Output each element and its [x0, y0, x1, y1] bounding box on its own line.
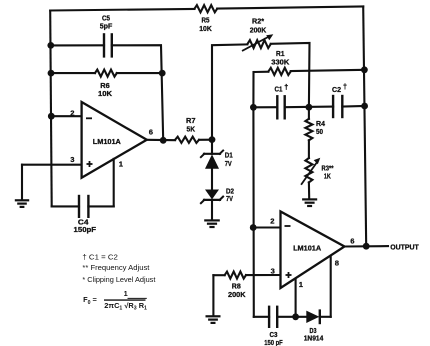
svg-text:6: 6 — [350, 236, 354, 245]
wire: C1/C2 node to R4 — [308, 107, 310, 119]
svg-text:OUTPUT: OUTPUT — [390, 243, 419, 252]
wire: right bus — [363, 7, 366, 247]
svg-text:2πC1 √R3 R1: 2πC1 √R3 R1 — [104, 301, 147, 312]
svg-text:50: 50 — [316, 127, 323, 136]
U2 plus sign — [286, 272, 292, 278]
svg-text:5K: 5K — [187, 124, 196, 133]
svg-text:C2: C2 — [332, 85, 341, 94]
resistor R5 — [195, 5, 218, 12]
node: C1 left junction — [250, 104, 257, 111]
capacitor C4 — [79, 196, 88, 217]
potentiometer R2 — [247, 40, 270, 48]
resistor R6 — [95, 70, 117, 77]
node: U1 output — [160, 137, 167, 144]
wire: C5 row right + drop to U1 output — [112, 45, 163, 140]
capacitor C3 — [269, 307, 277, 327]
node: R7 / zener / R2 — [209, 136, 216, 143]
capacitor C5 — [104, 34, 112, 56]
wire: R8 row left — [213, 274, 224, 276]
svg-text:2: 2 — [70, 108, 74, 117]
wire: R8 left drop to ground — [212, 275, 214, 316]
svg-text:†: † — [343, 82, 347, 91]
diode D2 zener — [201, 190, 223, 204]
wire: U2 pin6 to OUTPUT — [345, 245, 389, 247]
svg-text:†: † — [284, 82, 288, 91]
svg-text:2: 2 — [270, 216, 274, 225]
wire: R8 row right to U2 pin3 — [246, 274, 281, 276]
resistor R8 — [225, 272, 246, 279]
resistor R4 — [305, 119, 312, 141]
op-amp U1 LM101A triangle — [82, 102, 147, 178]
wire: R1 row left + drop to C1 node — [253, 72, 268, 108]
svg-text:200K: 200K — [250, 26, 267, 35]
wire: D2 cathode to ground — [211, 200, 213, 220]
ground below R3 — [302, 199, 317, 206]
wire: top supply loop left segment — [50, 9, 194, 11]
svg-text:** Frequency Adjust: ** Frequency Adjust — [82, 263, 149, 272]
node: left bus / C5 row — [47, 42, 54, 49]
node: C2 right / right bus — [361, 103, 368, 110]
wire: top loop right segment — [217, 7, 363, 9]
U1 plus sign — [87, 161, 93, 167]
svg-text:7V: 7V — [225, 159, 232, 168]
wire: C1-C2 middle segment — [285, 106, 333, 109]
wire: R3 to ground — [308, 182, 310, 198]
wire: R6 row right — [117, 72, 162, 74]
wire: U1 pin1 drop — [113, 159, 115, 207]
wire: R6 row left — [51, 72, 95, 74]
wire: C4 row right — [88, 205, 113, 207]
svg-text:10K: 10K — [98, 89, 113, 98]
ground below D2 — [204, 220, 220, 227]
ground below R8 — [206, 316, 221, 323]
wire: R2 row right + drop to C1/C2 node — [271, 43, 310, 107]
wire: mid bus C1 node down to C3 row — [252, 107, 255, 316]
ground at U1 pin3 — [15, 200, 29, 207]
wire: C3 to pin1 node — [277, 316, 306, 318]
node: R6 right / C5 bus — [159, 70, 166, 77]
svg-text:C1: C1 — [275, 84, 283, 93]
wire: C4 row left — [52, 205, 79, 207]
svg-text:F0 =: F0 = — [83, 295, 97, 306]
svg-text:R1: R1 — [276, 49, 285, 58]
node: C3 / D3 / U2 pin1 — [292, 313, 299, 320]
capacitor C1 — [277, 96, 284, 118]
U2 minus sign — [285, 225, 291, 227]
capacitor C2 — [333, 96, 342, 117]
wire: U1 pin3 non-inverting input — [22, 164, 82, 166]
svg-text:3: 3 — [70, 155, 74, 164]
wire: D3 to pin8 corner — [320, 316, 331, 318]
diode D3 — [306, 311, 320, 323]
node: left bus / R6 row — [48, 70, 55, 77]
wire: node to D1 cathode — [211, 140, 213, 154]
wire: R4 to R3 — [308, 140, 310, 158]
svg-text:5pF: 5pF — [100, 21, 113, 30]
svg-text:10K: 10K — [199, 24, 212, 33]
svg-text:R2*: R2* — [252, 16, 264, 25]
wire: pin3 drop to ground — [21, 165, 23, 200]
svg-text:330K: 330K — [271, 58, 290, 67]
svg-text:1K: 1K — [324, 171, 332, 180]
node: C1/C2/R4 junction — [306, 104, 313, 111]
svg-text:LM101A: LM101A — [93, 137, 121, 146]
svg-text:* Clipping Level Adjust: * Clipping Level Adjust — [82, 275, 155, 284]
wire: R2 row left + drop to zener node — [212, 44, 247, 139]
svg-text:1: 1 — [124, 289, 128, 298]
node: left bus / U1 pin2 — [48, 113, 55, 120]
svg-text:† C1 = C2: † C1 = C2 — [82, 252, 118, 261]
resistor R1 — [268, 68, 290, 75]
wire: U1 pin2 inverting input — [51, 115, 81, 117]
svg-text:LM101A: LM101A — [293, 244, 321, 253]
node: OUTPUT junction — [363, 243, 370, 250]
potentiometer R3 — [305, 158, 312, 182]
svg-text:150pF: 150pF — [74, 225, 97, 234]
resistor R7 — [175, 137, 199, 143]
wire: U1 pin6 output to R7 — [147, 139, 175, 141]
svg-text:6: 6 — [149, 127, 153, 136]
diode D1 zener — [201, 151, 223, 169]
svg-text:8: 8 — [335, 258, 339, 267]
op-amp U2 LM101A triangle — [281, 212, 345, 289]
wire: R7 right to zener node — [199, 139, 212, 141]
svg-text:150 pF: 150 pF — [264, 338, 283, 346]
svg-text:1: 1 — [119, 160, 124, 169]
svg-text:200K: 200K — [228, 290, 246, 299]
svg-text:7V: 7V — [226, 194, 233, 203]
node: mid bus / U2 pin2 — [250, 224, 257, 231]
svg-text:1N914: 1N914 — [304, 334, 324, 343]
wire: R1 row right to right bus — [291, 70, 365, 71]
wire: left feedback bus — [50, 11, 52, 207]
svg-text:1: 1 — [299, 280, 304, 289]
wire: U2 pin1 drop — [295, 279, 297, 317]
wire: U2 pin8 drop — [330, 256, 332, 317]
node: R1 right / right bus — [361, 66, 368, 73]
wire: U2 pin2 inverting input — [253, 226, 280, 228]
wire: C2 to right bus — [342, 105, 364, 108]
wire: D1 anode to D2 anode — [211, 169, 213, 190]
wire: C3 row left — [254, 316, 269, 318]
svg-text:3: 3 — [271, 267, 275, 276]
wire: C1 row left — [253, 106, 277, 108]
wire: C5 row left — [51, 44, 104, 46]
U1 minus sign — [86, 117, 92, 119]
